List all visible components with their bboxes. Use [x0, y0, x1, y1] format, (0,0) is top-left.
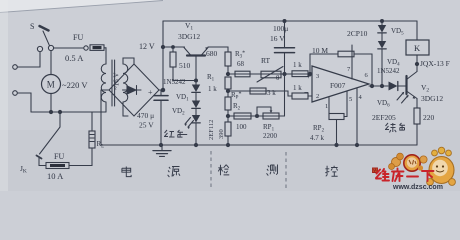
RP2 wiper [336, 120, 338, 146]
pin7 stub [351, 45, 353, 79]
node row A left [226, 72, 229, 75]
transistor V2 [405, 76, 407, 94]
subtle scan shading [0, 130, 460, 191]
LED VD3 red [192, 115, 200, 123]
node collector [415, 62, 418, 65]
svg-text:1 k: 1 k [293, 61, 302, 69]
node VD column [380, 84, 383, 87]
svg-text:3: 3 [316, 73, 319, 80]
svg-text:RT: RT [261, 56, 271, 65]
transistor V1 [187, 54, 205, 56]
svg-text:16 V: 16 V [270, 34, 285, 43]
node row B left [226, 89, 229, 92]
watermark mascot big [427, 147, 456, 185]
wire raw riser [162, 21, 164, 90]
node zener top [195, 79, 198, 82]
svg-text:100: 100 [236, 123, 247, 131]
bridge diode symbol [127, 86, 136, 94]
svg-text:K: K [414, 43, 421, 53]
resistor 10M [338, 51, 354, 57]
wire emitter rail [208, 47, 228, 52]
fuse FU1 terminal [84, 46, 88, 50]
node row E left [226, 114, 229, 117]
resistor R1 [225, 77, 231, 89]
relay contact Jk riser [59, 112, 61, 127]
thermistor RT [261, 71, 281, 78]
svg-text:+: + [307, 72, 312, 81]
LED VD3 emission arrows [185, 118, 191, 125]
svg-text:5: 5 [349, 96, 352, 103]
fuse FU2 10A [46, 163, 69, 169]
transformer T secondary [123, 64, 128, 102]
relay contact Jk [40, 127, 61, 154]
wire [104, 48, 106, 64]
label power 电 [122, 166, 131, 176]
svg-text:−: − [304, 88, 309, 97]
label power 源 [168, 167, 180, 178]
svg-text:510: 510 [179, 61, 191, 70]
resistor 100 [234, 113, 251, 119]
wire pin2 [308, 95, 312, 97]
paper edge wedge top-left [0, 0, 165, 13]
svg-text:+: + [148, 88, 153, 97]
watermark red text 维库一下 [376, 169, 434, 182]
diode VD5 2CP10 [381, 21, 383, 25]
section divider 1 [210, 151, 212, 190]
svg-text:~220 V: ~220 V [62, 80, 88, 90]
capacitor C2 100u [284, 21, 286, 48]
label detect 检 [218, 165, 229, 176]
wire [54, 47, 84, 49]
node junction [49, 110, 52, 113]
wire mains bottom [31, 111, 106, 113]
fuse FU1 0.5A [90, 45, 104, 51]
resistor 1k (to pin3) [292, 71, 308, 77]
node [161, 88, 164, 91]
resistor R2 [225, 97, 231, 110]
wire riser cap column [284, 74, 286, 116]
svg-text:3DG12: 3DG12 [178, 32, 200, 41]
feedback 10M riser [310, 54, 338, 74]
wire top rail [163, 20, 417, 22]
svg-text:1N5242: 1N5242 [377, 67, 400, 75]
svg-text:2EF205: 2EF205 [372, 113, 396, 122]
svg-text:2CP10: 2CP10 [347, 29, 368, 38]
label control 控 [325, 166, 337, 177]
wire [123, 58, 134, 64]
svg-text:FU: FU [73, 33, 83, 42]
svg-text:1N5242: 1N5242 [163, 78, 186, 86]
bridge rectifier [109, 64, 159, 116]
wire pin6 output [369, 85, 388, 87]
svg-text:1 k: 1 k [293, 84, 302, 92]
wire [91, 112, 93, 131]
resistor 680 [225, 52, 231, 66]
node [256, 115, 259, 118]
node [226, 143, 229, 146]
node output [370, 84, 373, 87]
switch S blade tip bar [40, 26, 49, 31]
wire bridge plus [159, 89, 163, 91]
resistor R3* 68 [235, 71, 250, 77]
paper background [0, 0, 460, 191]
svg-text:2: 2 [316, 93, 319, 100]
relay K coil [416, 21, 418, 40]
resistor 1k (to pin2) [292, 93, 308, 99]
svg-text:3 k: 3 k [267, 89, 276, 97]
capacitor C1 470u [161, 89, 163, 91]
svg-text:1: 1 [325, 103, 328, 110]
node on rail [381, 20, 384, 23]
node [283, 72, 286, 75]
resistor 220 [414, 108, 420, 124]
terminal T2 [13, 91, 18, 96]
transformer core [111, 60, 113, 106]
diode VD4 1N5242 [378, 41, 386, 49]
resistor RL [89, 131, 95, 148]
svg-text:470 μ: 470 μ [137, 111, 154, 120]
switch S pole A [37, 46, 42, 51]
potentiometer RP1 [263, 113, 279, 119]
section divider 2 [285, 152, 287, 190]
pin5 stub [344, 91, 347, 117]
potentiometer RP2 [329, 114, 344, 120]
svg-text:25 V: 25 V [139, 121, 154, 130]
svg-text:1 k: 1 k [208, 85, 217, 93]
wire [39, 158, 46, 166]
switch S pole B [48, 45, 53, 50]
diode VD2 [192, 101, 200, 109]
node 12V [161, 45, 164, 48]
resistor 510 [172, 46, 175, 49]
watermark mascot cluster [389, 153, 428, 171]
label red 红色 [164, 130, 187, 137]
motor M [42, 75, 61, 94]
node [159, 143, 162, 146]
svg-text:0.5 A: 0.5 A [65, 53, 84, 63]
wire row E [228, 115, 285, 117]
svg-text:~16 V: ~16 V [113, 73, 121, 90]
wire [105, 102, 107, 112]
ground symbol [161, 145, 163, 150]
ground rail [101, 144, 417, 146]
watermark small icon [373, 168, 378, 173]
LED VD6 green [389, 82, 398, 91]
svg-text:680: 680 [206, 49, 218, 58]
resistor 390 [227, 116, 229, 122]
node plus input [308, 72, 311, 75]
pin4 stub [356, 89, 358, 146]
wire bridge minus to ground [101, 90, 109, 145]
label green 绿色 [385, 123, 405, 133]
svg-text:S: S [30, 22, 34, 31]
LED VD6 emission arrows [397, 93, 404, 101]
wire 12V rail [163, 46, 185, 48]
switch S blade [43, 31, 50, 46]
svg-text:F007: F007 [330, 81, 346, 90]
wire row B [228, 91, 292, 96]
wire pin3 [310, 73, 312, 75]
op-amp U1 F007 [312, 66, 369, 102]
node [194, 143, 197, 146]
zener VD1 1N5242 [192, 85, 200, 93]
pin1 stub [328, 98, 330, 114]
svg-text:220: 220 [423, 113, 435, 122]
terminal T1 [13, 65, 18, 70]
svg-text:3DG12: 3DG12 [421, 94, 443, 103]
svg-text:JQX-13 F: JQX-13 F [420, 59, 450, 68]
svg-text:12 V: 12 V [139, 42, 155, 51]
wire [17, 93, 31, 112]
label detect 测 [267, 165, 278, 176]
wire [50, 51, 52, 75]
wire [123, 102, 128, 116]
svg-text:100μ: 100μ [273, 24, 288, 33]
svg-text:10 M: 10 M [312, 46, 328, 55]
resistor 3k [250, 88, 266, 94]
svg-text:68: 68 [237, 60, 245, 68]
wire [227, 66, 229, 74]
transformer T primary [101, 64, 106, 102]
wire [17, 52, 40, 67]
wire [69, 148, 92, 166]
wire row A [228, 73, 310, 75]
wire [50, 94, 52, 113]
svg-text:M: M [47, 80, 55, 90]
